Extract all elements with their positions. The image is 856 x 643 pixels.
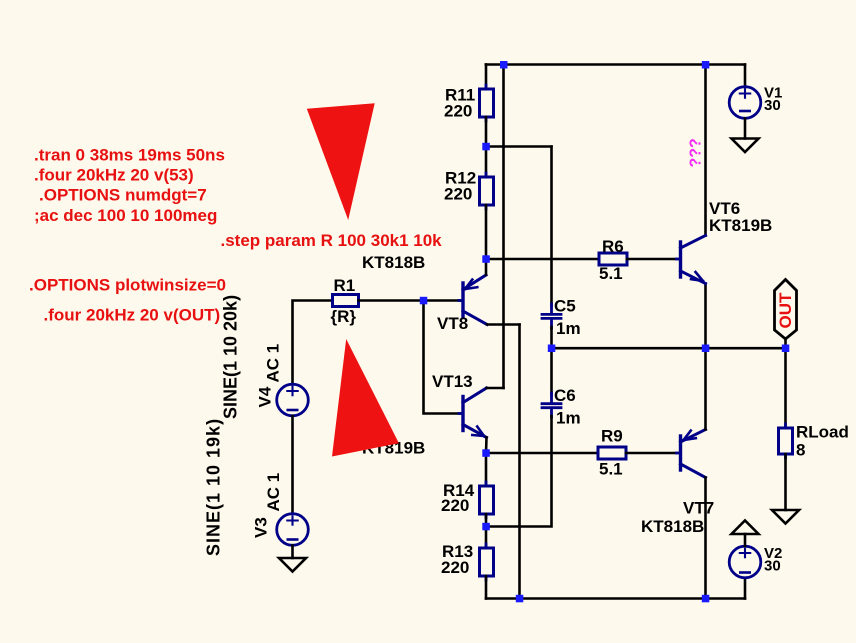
resistor R11 [480,89,494,117]
capacitor C5 [542,304,561,328]
wire V1 bottom to ground [744,119,747,139]
wire node to R9 [486,452,598,455]
resistor R12 [480,177,494,205]
svg-text:VT8: VT8 [437,314,468,333]
voltage source V4 [277,384,309,416]
wire C6 bottom to R14-R13 node [486,416,552,527]
ground for RLoad [772,510,799,524]
transistor VT13 (NPN KT819B) [459,388,487,438]
wire R11 bottom to node [485,117,488,147]
wire VT8 collector to x519 column [487,323,520,326]
wire node to C5 column [486,145,552,148]
transistor VT6 (NPN KT819B) [677,236,706,284]
voltage source V3 [277,514,309,546]
svg-text:220: 220 [444,102,472,121]
node junction mid rail / VT6-VT7 emitters [702,345,710,353]
svg-text:30: 30 [764,558,781,575]
wire C5 bottom to mid rail [550,327,553,348]
wire R12 top lead [485,147,488,178]
wire R13 bottom to bottom rail [485,576,488,599]
node junction R1 right [420,297,428,305]
wire mid rail (OUT net) [552,347,786,350]
wire V2 top to ground [744,534,747,546]
svg-text:5.1: 5.1 [599,264,623,283]
svg-text:R6: R6 [602,237,624,256]
wire VT13 collector to x503 column [487,387,504,390]
wire R13 top lead [485,527,488,549]
node junction bottom rail / VT7 collector [702,595,710,603]
svg-text:VT13: VT13 [432,372,473,391]
node junction top rail / x503 [500,61,508,69]
wire node to VT8 base [424,299,460,302]
svg-text:KT818B: KT818B [641,517,704,536]
node junction top rail / VT6 collector [702,61,710,69]
svg-text:.OPTIONS numdgt=7: .OPTIONS numdgt=7 [39,186,207,205]
red marker triangle 1 [307,103,375,220]
wire C5 column upper [550,147,553,307]
resistor RLoad [779,428,793,454]
resistor R6 [599,253,627,265]
resistor R1 [333,295,359,307]
svg-text:???: ??? [688,138,705,167]
svg-text:220: 220 [441,496,469,515]
svg-text:KT818B: KT818B [362,253,425,272]
wire OUT flag stem [784,339,787,348]
svg-text:220: 220 [444,185,472,204]
svg-text:30: 30 [764,97,781,114]
node junction mid rail / C5 [548,345,556,353]
wire V4 to V3 [291,416,294,514]
transistor VT8 (PNP KT818B) [459,275,487,325]
wire vertical from top rail to VT13 collector [502,65,505,389]
wire VT6 emitter down to mid rail [704,284,707,349]
svg-text:OUT: OUT [776,292,795,329]
wire x519 column down to bottom rail [518,325,521,599]
ground for V2 (pointing up) [732,521,759,535]
svg-text:SINE(1 10 20k): SINE(1 10 20k) [221,295,241,419]
red marker triangle 2 [332,339,399,457]
svg-text:AC 1: AC 1 [264,473,283,512]
wire RLoad top lead [784,348,787,428]
svg-text:1m: 1m [556,409,581,428]
wire C6 top from mid rail [550,348,553,395]
wire V1 top lead [744,65,747,88]
svg-text:1m: 1m [556,319,581,338]
resistor R9 [598,447,626,459]
svg-text:RLoad: RLoad [796,423,849,442]
wire R11 top lead [485,65,488,90]
wire VT13 emitter down to node [485,438,488,454]
wire node down to VT13 base [424,301,460,414]
svg-text:C6: C6 [554,386,576,405]
ground for V1 [732,139,759,153]
wire V2 bottom lead [744,578,747,599]
svg-text:.four 20kHz 20 v(53): .four 20kHz 20 v(53) [34,166,194,185]
wire R12 bottom to node [485,205,488,259]
wire R6 to VT6 base [627,258,677,261]
svg-text:;ac dec 100 10 100meg: ;ac dec 100 10 100meg [34,206,217,225]
svg-text:8: 8 [796,441,805,460]
svg-text:C5: C5 [554,297,576,316]
wire top rail [486,63,745,66]
svg-text:220: 220 [441,558,469,577]
svg-text:{R}: {R} [331,307,357,326]
svg-text:AC 1: AC 1 [264,344,283,383]
capacitor C6 [542,393,561,417]
wire VT7 emitter up to mid rail [704,348,707,429]
wire R1 right to node [359,299,424,302]
svg-text:.tran 0 38ms 19ms 50ns: .tran 0 38ms 19ms 50ns [34,146,225,165]
svg-text:R9: R9 [601,427,623,446]
node junction mid rail / OUT flag [782,345,790,353]
resistor R13 [480,548,494,576]
node junction VT13 emitter / R14 [482,449,490,457]
voltage source V1 [729,87,761,119]
node junction dots [420,61,790,602]
flag OUT [775,280,797,340]
svg-text:5.1: 5.1 [599,460,623,479]
ground for V3 [279,558,306,572]
svg-text:.four 20kHz 20 v(OUT): .four 20kHz 20 v(OUT) [44,306,221,325]
voltage source V2 [729,546,761,578]
wire R1 left to V4 [293,301,333,385]
wire base rail to R6 [486,258,599,261]
node junction R12-VT8 emitter [482,255,490,262]
svg-text:V4: V4 [256,386,275,407]
wire vertical from top rail to VT6 collector [704,65,707,236]
svg-text:.step param R 100 30k1 10k: .step param R 100 30k1 10k [221,231,443,250]
node junction R11-R12 [482,143,490,151]
wire V3 bottom to ground [291,546,294,559]
wire RLoad bottom to ground [784,454,787,510]
wire R14 top lead [485,453,488,486]
wire R9 to VT7 base [626,452,677,455]
wire VT8 emitter up to node [485,259,488,275]
node junction R14-R13 / C6 [482,523,490,531]
wire VT7 collector down to bottom rail [704,478,707,599]
svg-text:SINE(1 10 19k): SINE(1 10 19k) [204,418,224,556]
svg-text:V3: V3 [252,517,271,538]
svg-text:.OPTIONS plotwinsize=0: .OPTIONS plotwinsize=0 [29,276,226,295]
transistor VT7 (PNP KT818B) [677,430,706,478]
svg-text:KT819B: KT819B [709,216,772,235]
svg-text:R1: R1 [334,276,356,295]
wire bottom rail [486,597,745,600]
node junction bottom rail / x519 [516,595,524,603]
wire R14 bottom to node [485,514,488,527]
resistor R14 [480,486,494,514]
svg-text:VT7: VT7 [683,499,714,518]
